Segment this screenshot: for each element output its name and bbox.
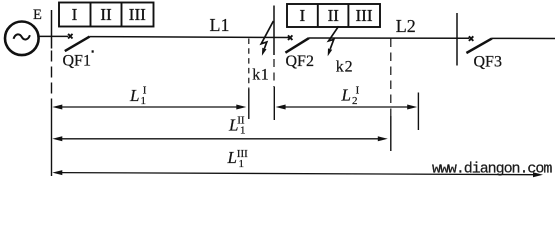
svg-text:L: L bbox=[129, 86, 139, 105]
svg-text:L: L bbox=[341, 86, 351, 105]
svg-text:L: L bbox=[227, 148, 237, 167]
svg-text:QF1: QF1 bbox=[63, 52, 91, 69]
svg-text:L2: L2 bbox=[396, 16, 416, 36]
svg-text:QF3: QF3 bbox=[474, 54, 502, 71]
svg-text:III: III bbox=[356, 6, 373, 25]
svg-text:QF2: QF2 bbox=[286, 53, 314, 70]
svg-text:E: E bbox=[33, 7, 42, 23]
svg-text:I: I bbox=[72, 5, 78, 24]
svg-text:k2: k2 bbox=[336, 58, 354, 75]
svg-text:II: II bbox=[237, 115, 245, 127]
svg-text:III: III bbox=[129, 5, 146, 24]
svg-text:www.diangon.com: www.diangon.com bbox=[432, 161, 552, 178]
svg-text:1: 1 bbox=[141, 95, 147, 107]
svg-text:L1: L1 bbox=[210, 15, 230, 35]
svg-text:III: III bbox=[237, 148, 248, 160]
svg-text:I: I bbox=[299, 6, 305, 25]
svg-text:k1: k1 bbox=[252, 67, 269, 84]
svg-text:I: I bbox=[143, 85, 147, 97]
svg-text:2: 2 bbox=[352, 95, 358, 107]
svg-text:II: II bbox=[328, 6, 340, 25]
svg-text:I: I bbox=[356, 85, 360, 97]
svg-text:II: II bbox=[100, 5, 112, 24]
